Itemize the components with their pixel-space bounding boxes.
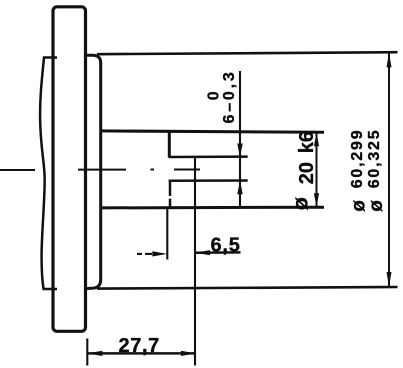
extension line bottom (ø60) <box>97 287 398 289</box>
extension line x=167 (6.5) <box>166 208 168 260</box>
extension line x=87 (27.7) <box>86 339 88 366</box>
svg-text:60,299: 60,299 <box>349 129 366 189</box>
arrow ø60 top <box>387 52 392 67</box>
arrow ø20 top <box>314 132 319 146</box>
dim line ø60,299/60,325 <box>388 52 390 287</box>
svg-text:ø: ø <box>366 200 387 212</box>
centerline <box>0 169 200 172</box>
extension line x=195 (27.7 / 6.5) <box>194 157 196 366</box>
extension line top (ø60) <box>97 52 398 54</box>
dim line 6-0,3 <box>239 71 241 208</box>
keyway start lower edge (hidden) <box>169 181 172 208</box>
dim line ø20 k6 <box>316 132 318 207</box>
dim line 6,5 left lead <box>137 253 152 255</box>
arrow ø20 bottom <box>314 193 319 207</box>
shaft bottom line <box>100 206 324 210</box>
flange plate <box>53 7 86 332</box>
shaft top line <box>100 131 324 132</box>
arrow 6,5 right (points left) <box>195 250 210 255</box>
svg-text:60,325: 60,325 <box>366 129 383 189</box>
dim line 27,7 <box>87 352 196 355</box>
arrowheads <box>87 52 391 356</box>
arrow ø60 bottom <box>387 272 392 287</box>
svg-text:20: 20 <box>296 162 318 184</box>
arrow 27,7 left <box>87 351 102 356</box>
dim line 6,5 right lead <box>195 251 241 254</box>
svg-text:6,5: 6,5 <box>211 234 241 256</box>
svg-text:k6: k6 <box>296 131 318 153</box>
arrow 6,5 left (points right) <box>152 251 167 256</box>
rear housing outline <box>40 58 57 290</box>
keyway start upper edge <box>168 131 171 158</box>
svg-text:ø: ø <box>289 196 313 210</box>
svg-text:0: 0 <box>206 91 223 100</box>
svg-text:6–0,3: 6–0,3 <box>221 69 238 123</box>
arrow 27,7 right <box>181 351 196 356</box>
keyway bottom edge <box>169 179 248 182</box>
pilot spigot ø60 <box>86 55 101 288</box>
arrow 6-0,3 lower (up to y181) <box>237 180 242 194</box>
svg-text:27,7: 27,7 <box>119 335 160 357</box>
keyway top edge <box>169 155 248 158</box>
arrow 6-0,3 upper (down to y157) <box>237 144 242 158</box>
